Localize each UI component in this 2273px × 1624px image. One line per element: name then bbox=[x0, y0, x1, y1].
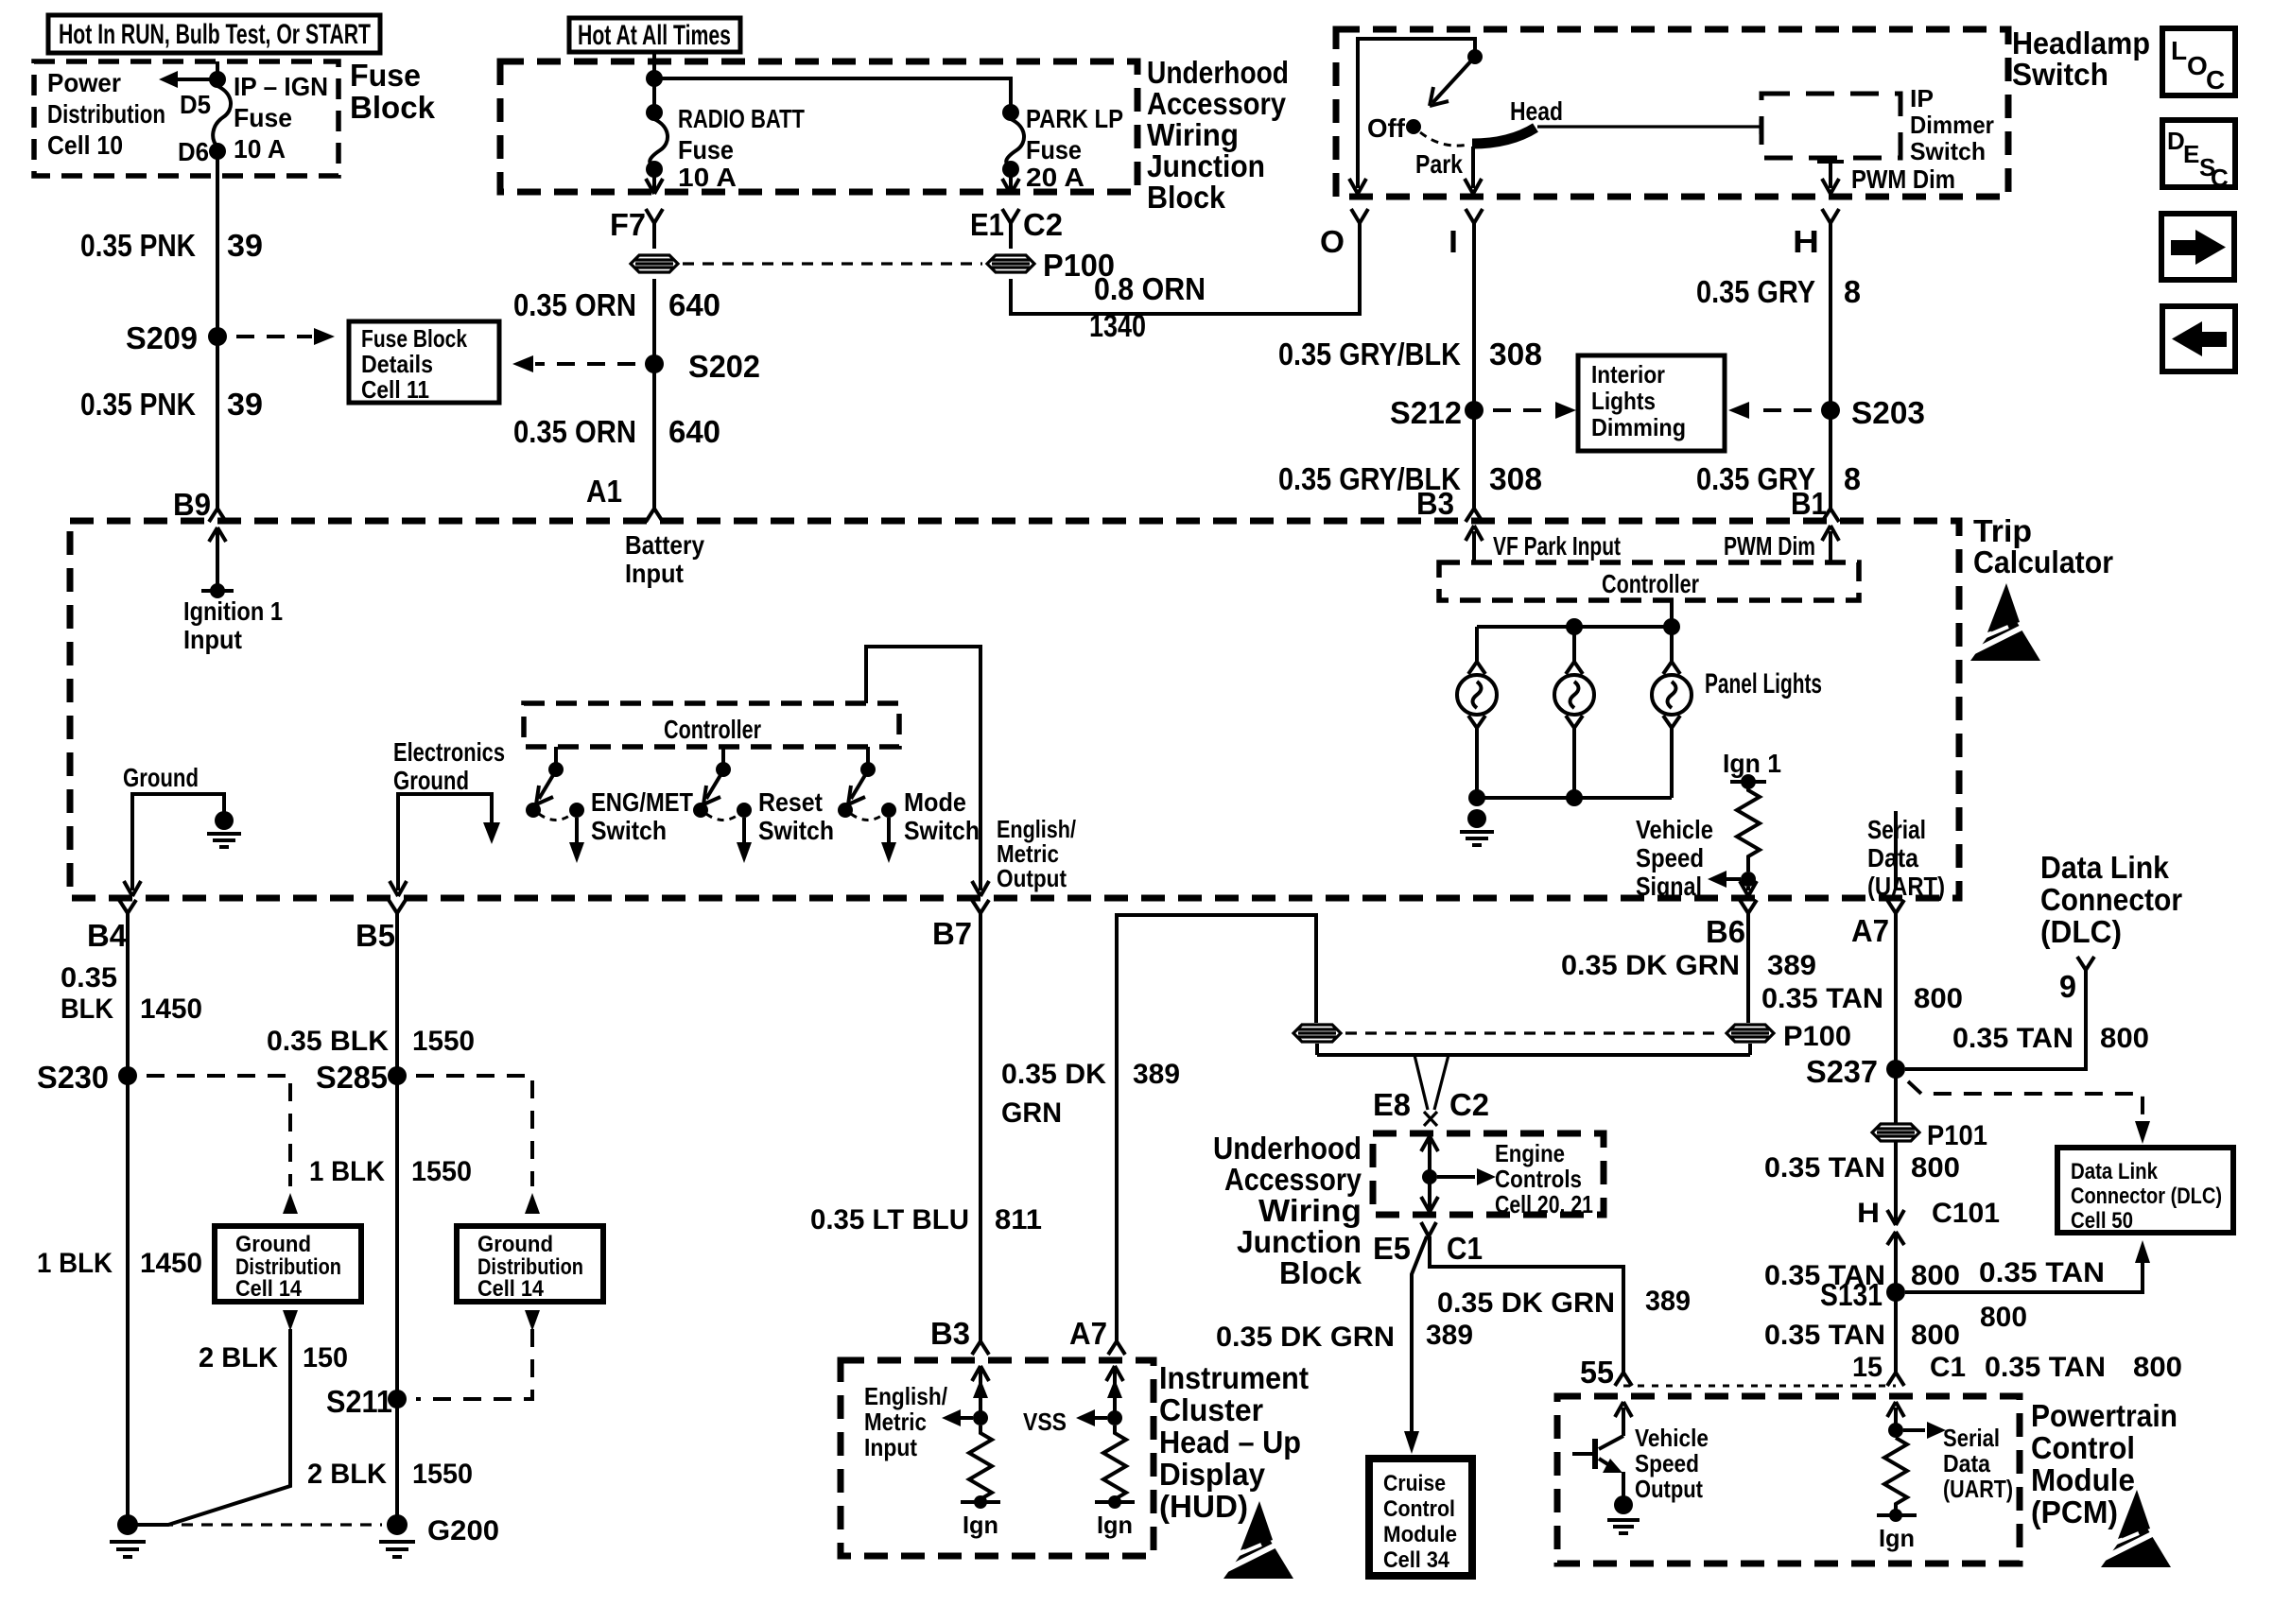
inline connector P101 bbox=[1872, 1124, 1919, 1141]
LOC nav box bbox=[2162, 28, 2235, 95]
Off contact bbox=[1367, 113, 1421, 143]
svg-text:Block: Block bbox=[1147, 180, 1226, 215]
splice S211 bbox=[326, 1384, 407, 1419]
svg-text:S237: S237 bbox=[1806, 1054, 1878, 1089]
svg-text:Fuse: Fuse bbox=[1026, 135, 1082, 164]
svg-text:Ignition 1: Ignition 1 bbox=[183, 596, 283, 626]
ESD symbol HUD bbox=[1223, 1501, 1293, 1579]
svg-text:Cell 14: Cell 14 bbox=[235, 1276, 303, 1302]
terminal B7 bbox=[932, 900, 989, 951]
svg-text:8: 8 bbox=[1844, 274, 1861, 309]
svg-text:Data Link: Data Link bbox=[2071, 1159, 2159, 1184]
svg-text:Electronics: Electronics bbox=[393, 737, 505, 767]
dashed ground link bbox=[142, 1523, 382, 1526]
svg-text:(UART): (UART) bbox=[1943, 1475, 2013, 1503]
svg-text:Dimmer: Dimmer bbox=[1910, 111, 1994, 139]
svg-text:Calculator: Calculator bbox=[1973, 544, 2113, 579]
svg-text:Cell 11: Cell 11 bbox=[361, 375, 429, 404]
svg-text:Ign: Ign bbox=[1879, 1524, 1915, 1552]
svg-text:0.35 DK GRN: 0.35 DK GRN bbox=[1216, 1322, 1395, 1353]
svg-text:10 A: 10 A bbox=[234, 134, 286, 164]
svg-text:S131: S131 bbox=[1820, 1277, 1883, 1312]
ground symbol panel lights bbox=[1460, 809, 1494, 845]
wire 0.35 ORN 640 upper bbox=[513, 279, 720, 509]
english/metric output wire bbox=[866, 647, 1076, 896]
svg-text:English/: English/ bbox=[864, 1382, 947, 1410]
svg-text:(DLC): (DLC) bbox=[2040, 914, 2122, 949]
ESD symbol trip calculator bbox=[1970, 583, 2040, 661]
wire 0.35 TAN 800 below C101 bbox=[1764, 1260, 1960, 1291]
svg-text:Battery: Battery bbox=[625, 530, 704, 560]
svg-text:Serial: Serial bbox=[1943, 1424, 2000, 1452]
underhood accessory wiring junction block box 1 bbox=[500, 55, 1289, 215]
svg-text:RADIO BATT: RADIO BATT bbox=[678, 104, 805, 133]
svg-text:(HUD): (HUD) bbox=[1159, 1489, 1248, 1524]
svg-text:Ign: Ign bbox=[963, 1511, 998, 1539]
svg-text:B4: B4 bbox=[87, 918, 128, 953]
svg-text:1 BLK: 1 BLK bbox=[37, 1248, 113, 1279]
svg-text:39: 39 bbox=[227, 387, 263, 422]
panel lamp 3 bbox=[1652, 662, 1692, 728]
wire B7 to HUD B3 0.35 LT BLU 811 bbox=[810, 913, 1042, 1355]
splice S230 bbox=[37, 1060, 298, 1214]
Reset switch bbox=[693, 747, 834, 863]
terminal 15 C1 PCM bbox=[1852, 1352, 2182, 1386]
PCM box bbox=[1557, 1396, 2178, 1564]
svg-text:150: 150 bbox=[303, 1342, 348, 1373]
svg-text:Controller: Controller bbox=[664, 715, 761, 744]
svg-text:Ground: Ground bbox=[477, 1232, 553, 1257]
svg-text:VSS: VSS bbox=[1023, 1408, 1067, 1436]
wire 0.35 GRY 8 lower bbox=[1696, 461, 1861, 496]
svg-text:D5: D5 bbox=[180, 90, 211, 119]
wire label 1 BLK 1550 bbox=[309, 1156, 472, 1187]
controller box right bbox=[1439, 562, 1859, 600]
terminal B6 bbox=[1706, 900, 1757, 949]
ground G200 left point bbox=[110, 1514, 146, 1557]
HUD english/metric input resistor bbox=[864, 1366, 1000, 1539]
svg-text:O: O bbox=[2187, 51, 2208, 80]
panel lamp 2 bbox=[1554, 662, 1594, 728]
svg-text:Block: Block bbox=[350, 90, 436, 125]
svg-text:A1: A1 bbox=[586, 474, 622, 509]
svg-text:Lights: Lights bbox=[1591, 387, 1656, 415]
svg-text:PWM Dim: PWM Dim bbox=[1724, 531, 1815, 561]
svg-text:Controller: Controller bbox=[1602, 569, 1699, 598]
Mode switch bbox=[838, 747, 980, 863]
splice S285 bbox=[316, 1060, 540, 1214]
svg-text:Headlamp: Headlamp bbox=[2012, 26, 2150, 60]
svg-text:Head: Head bbox=[1510, 96, 1563, 126]
svg-text:Block: Block bbox=[1279, 1255, 1362, 1290]
svg-text:640: 640 bbox=[668, 287, 720, 322]
wire bus inside junction block bbox=[646, 52, 1011, 112]
svg-text:H: H bbox=[1793, 224, 1819, 259]
svg-text:F7: F7 bbox=[610, 207, 646, 242]
svg-text:P100: P100 bbox=[1783, 1021, 1851, 1052]
svg-text:Switch: Switch bbox=[1910, 137, 1986, 165]
serial data UART label bbox=[1867, 815, 1945, 901]
battery input label bbox=[625, 530, 704, 588]
svg-text:389: 389 bbox=[1645, 1286, 1691, 1317]
svg-text:E8: E8 bbox=[1373, 1087, 1411, 1122]
dashed arrow from S202 into details box bbox=[512, 355, 635, 372]
svg-text:0.35 PNK: 0.35 PNK bbox=[80, 387, 196, 422]
trip calculator box bbox=[70, 513, 2113, 898]
svg-text:Controls: Controls bbox=[1495, 1165, 1582, 1193]
svg-text:Fuse Block: Fuse Block bbox=[361, 324, 467, 353]
svg-text:Cruise: Cruise bbox=[1383, 1471, 1446, 1496]
splice S212 bbox=[1390, 395, 1576, 430]
svg-text:IP – IGN: IP – IGN bbox=[234, 72, 328, 101]
ground distribution box 1 bbox=[215, 1226, 361, 1302]
svg-text:Speed: Speed bbox=[1636, 843, 1704, 872]
svg-text:Cluster: Cluster bbox=[1159, 1392, 1263, 1427]
svg-text:Head – Up: Head – Up bbox=[1159, 1425, 1301, 1460]
svg-text:1550: 1550 bbox=[411, 1156, 472, 1187]
terminal B9 bbox=[173, 487, 226, 522]
svg-text:Switch: Switch bbox=[904, 816, 980, 845]
svg-text:ENG/MET: ENG/MET bbox=[591, 787, 693, 817]
svg-text:Cell 14: Cell 14 bbox=[477, 1276, 545, 1302]
svg-text:Underhood: Underhood bbox=[1147, 55, 1289, 90]
svg-text:0.35 DK: 0.35 DK bbox=[1001, 1059, 1106, 1090]
svg-text:C1: C1 bbox=[1930, 1352, 1966, 1383]
terminal B1 trip bbox=[1791, 486, 1839, 522]
svg-text:Mode: Mode bbox=[904, 787, 966, 817]
svg-text:O: O bbox=[1320, 224, 1345, 259]
svg-text:C1: C1 bbox=[1447, 1231, 1483, 1266]
svg-text:Junction: Junction bbox=[1147, 148, 1265, 183]
svg-text:1340: 1340 bbox=[1089, 308, 1146, 343]
terminal B4 bbox=[87, 900, 136, 953]
svg-text:B9: B9 bbox=[173, 487, 211, 522]
inline connector P100 bbox=[987, 255, 1034, 272]
svg-text:Wiring: Wiring bbox=[1147, 117, 1239, 152]
svg-text:C2: C2 bbox=[1023, 207, 1063, 242]
svg-text:Junction: Junction bbox=[1237, 1224, 1362, 1259]
svg-text:Signal: Signal bbox=[1636, 872, 1702, 901]
svg-text:Speed: Speed bbox=[1635, 1449, 1699, 1477]
svg-text:Switch: Switch bbox=[758, 816, 834, 845]
svg-text:811: 811 bbox=[995, 1204, 1042, 1235]
cruise control module box bbox=[1369, 1459, 1472, 1576]
terminal A7 trip bbox=[1851, 900, 1904, 948]
svg-text:Cell 20, 21: Cell 20, 21 bbox=[1495, 1190, 1593, 1218]
svg-text:VF Park Input: VF Park Input bbox=[1493, 531, 1621, 561]
svg-text:Display: Display bbox=[1159, 1457, 1266, 1492]
wire 0.8 ORN 1340 bbox=[1011, 209, 1368, 343]
wire 2 BLK 150 from box 1 bbox=[132, 1310, 348, 1525]
right arrow nav box bbox=[2161, 214, 2234, 280]
svg-text:Distribution: Distribution bbox=[47, 99, 165, 129]
svg-text:Metric: Metric bbox=[864, 1408, 927, 1436]
svg-text:10 A: 10 A bbox=[678, 163, 737, 192]
title box: Hot At All Times bbox=[569, 18, 740, 52]
svg-text:Data: Data bbox=[1867, 843, 1918, 872]
svg-text:Ground: Ground bbox=[123, 763, 199, 792]
svg-text:Input: Input bbox=[864, 1433, 917, 1461]
svg-text:Input: Input bbox=[183, 625, 242, 654]
svg-text:Output: Output bbox=[1635, 1475, 1703, 1503]
PCM connector dotted line bbox=[1623, 1385, 1896, 1388]
svg-text:Fuse: Fuse bbox=[350, 58, 421, 93]
svg-text:B6: B6 bbox=[1706, 914, 1745, 949]
svg-text:Data: Data bbox=[1943, 1449, 1990, 1477]
wire E5 to cruise control 0.35 DK GRN 389 bbox=[1216, 1236, 1473, 1454]
underhood junction block 2 box bbox=[1213, 1131, 1604, 1290]
svg-text:B3: B3 bbox=[1416, 486, 1454, 521]
svg-text:Switch: Switch bbox=[591, 816, 667, 845]
svg-text:8: 8 bbox=[1844, 461, 1861, 496]
svg-text:Connector: Connector bbox=[2040, 882, 2182, 917]
transistor vehicle speed output bbox=[1572, 1402, 1709, 1533]
panel lights feed bus bbox=[1477, 600, 1680, 662]
vehicle speed signal label bbox=[1636, 815, 1713, 901]
svg-text:Input: Input bbox=[625, 559, 684, 588]
svg-text:B5: B5 bbox=[356, 918, 395, 953]
fuse RADIO BATT 10A bbox=[646, 104, 805, 194]
svg-text:800: 800 bbox=[1914, 983, 1963, 1014]
electronics ground wire bbox=[390, 737, 505, 896]
svg-text:Wiring: Wiring bbox=[1258, 1193, 1362, 1228]
svg-text:Control: Control bbox=[1383, 1496, 1455, 1522]
ground wire left bbox=[123, 763, 224, 896]
svg-text:Ground: Ground bbox=[393, 766, 469, 795]
svg-text:389: 389 bbox=[1133, 1059, 1180, 1090]
IP dimmer switch box bbox=[1761, 84, 1994, 165]
HUD VSS resistor bbox=[1023, 1366, 1135, 1539]
wire 0.35 GRY/BLK 308 lower bbox=[1278, 461, 1542, 496]
svg-text:1550: 1550 bbox=[412, 1026, 475, 1057]
svg-text:15: 15 bbox=[1852, 1352, 1883, 1383]
svg-text:Cell 50: Cell 50 bbox=[2071, 1208, 2133, 1234]
wiper arrow to Off bbox=[1430, 57, 1475, 106]
svg-text:H: H bbox=[1857, 1198, 1880, 1229]
svg-text:0.35: 0.35 bbox=[61, 962, 117, 993]
dashed throw arc Off to Park bbox=[1420, 132, 1468, 146]
wire label 2 BLK 1550 bbox=[307, 1459, 473, 1490]
ignition 1 input terminal bbox=[183, 527, 283, 654]
DESC nav box bbox=[2162, 120, 2235, 192]
serial data wire inside bbox=[1894, 811, 1898, 890]
svg-text:Engine: Engine bbox=[1495, 1139, 1565, 1167]
svg-text:Switch: Switch bbox=[2012, 57, 2108, 92]
svg-text:S230: S230 bbox=[37, 1060, 109, 1095]
junction block 2 internal wire to engine controls bbox=[1421, 1136, 1593, 1218]
terminal H bbox=[1793, 209, 1839, 509]
svg-text:Output: Output bbox=[997, 864, 1067, 892]
svg-text:C101: C101 bbox=[1932, 1198, 2000, 1229]
svg-text:PWM Dim: PWM Dim bbox=[1851, 164, 1955, 194]
svg-text:0.35 TAN: 0.35 TAN bbox=[1761, 983, 1883, 1014]
wire HUD A7 0.35 DK GRN 389 bbox=[1001, 915, 1316, 1355]
serial data UART resistor PCM bbox=[1877, 1402, 2013, 1552]
data link connector DLC cell 50 box bbox=[2057, 1148, 2233, 1234]
svg-text:0.35 TAN: 0.35 TAN bbox=[1952, 1023, 2073, 1054]
svg-text:E5: E5 bbox=[1373, 1231, 1411, 1266]
svg-text:0.35 TAN: 0.35 TAN bbox=[1985, 1352, 2106, 1383]
interior lights dimming box bbox=[1578, 355, 1725, 451]
splice S237 bbox=[1806, 1054, 2150, 1144]
wire 0.35 TAN 800 below P101 bbox=[1764, 1142, 1960, 1225]
svg-text:2 BLK: 2 BLK bbox=[199, 1342, 278, 1373]
svg-text:Module: Module bbox=[1383, 1522, 1457, 1547]
svg-text:S202: S202 bbox=[688, 349, 760, 384]
svg-text:B3: B3 bbox=[930, 1316, 970, 1351]
svg-text:P101: P101 bbox=[1927, 1120, 1987, 1151]
svg-text:(UART): (UART) bbox=[1867, 872, 1945, 901]
svg-text:Details: Details bbox=[361, 350, 433, 378]
ground distribution box 2 bbox=[457, 1226, 603, 1302]
Ign 1 pullup resistor bbox=[1708, 749, 1781, 896]
svg-text:Hot In RUN, Bulb Test, Or STAR: Hot In RUN, Bulb Test, Or START bbox=[59, 19, 371, 50]
svg-text:Vehicle: Vehicle bbox=[1636, 815, 1713, 844]
svg-text:0.35 TAN: 0.35 TAN bbox=[1764, 1320, 1885, 1351]
svg-text:GRN: GRN bbox=[1001, 1097, 1062, 1129]
svg-text:Trip: Trip bbox=[1973, 513, 2032, 548]
svg-text:(PCM): (PCM) bbox=[2031, 1494, 2118, 1529]
switch wiper pivot bbox=[1467, 49, 1483, 64]
svg-text:I: I bbox=[1449, 224, 1458, 259]
svg-text:308: 308 bbox=[1489, 337, 1542, 371]
svg-text:A7: A7 bbox=[1069, 1316, 1107, 1351]
fuse block label bbox=[350, 58, 436, 125]
inline connector P100 right bbox=[1726, 1025, 1774, 1042]
svg-text:0.35 LT BLU: 0.35 LT BLU bbox=[810, 1204, 969, 1235]
ground G200 bbox=[379, 1514, 499, 1557]
svg-text:Hot At All Times: Hot At All Times bbox=[578, 20, 731, 51]
svg-text:S211: S211 bbox=[326, 1384, 392, 1419]
wire B5 ground 0.35 BLK 1550 bbox=[267, 913, 475, 1517]
wire B4 ground 0.35 BLK 1450 bbox=[61, 913, 202, 1517]
svg-text:Underhood: Underhood bbox=[1213, 1131, 1362, 1166]
svg-text:B1: B1 bbox=[1791, 486, 1827, 521]
svg-text:Off: Off bbox=[1367, 113, 1406, 143]
svg-text:Control: Control bbox=[2031, 1430, 2135, 1465]
VF park input arrow bbox=[1466, 526, 1621, 562]
svg-text:Dimming: Dimming bbox=[1591, 413, 1686, 441]
svg-text:Fuse: Fuse bbox=[678, 135, 734, 164]
svg-text:Ground: Ground bbox=[235, 1232, 311, 1257]
inline connector P100 left bbox=[1293, 1025, 1341, 1042]
svg-text:0.35 GRY: 0.35 GRY bbox=[1696, 274, 1815, 309]
fuse IP-IGN 10A bbox=[159, 61, 328, 166]
svg-text:BLK: BLK bbox=[61, 993, 113, 1025]
svg-text:0.35 PNK: 0.35 PNK bbox=[80, 228, 196, 263]
svg-text:0.35 DK GRN: 0.35 DK GRN bbox=[1437, 1287, 1615, 1319]
HUD box bbox=[841, 1360, 1309, 1556]
svg-text:389: 389 bbox=[1426, 1320, 1473, 1351]
svg-text:800: 800 bbox=[1911, 1152, 1960, 1183]
wire 0.35 PNK 39 bbox=[80, 157, 263, 509]
svg-text:S285: S285 bbox=[316, 1060, 388, 1095]
wire 0.35 GRY 8 upper bbox=[1696, 274, 1861, 309]
left arrow nav box bbox=[2162, 306, 2235, 371]
Park output wire bbox=[1465, 147, 1482, 194]
wire A7 trip to S237 0.35 TAN 800 bbox=[1761, 913, 1963, 1123]
svg-text:0.8 ORN: 0.8 ORN bbox=[1094, 271, 1206, 306]
svg-text:Vehicle: Vehicle bbox=[1635, 1424, 1709, 1452]
ENG/MET switch bbox=[526, 747, 693, 863]
svg-text:0.35 ORN: 0.35 ORN bbox=[513, 287, 636, 322]
terminal I bbox=[1449, 209, 1483, 509]
fuse PARK LP 20A bbox=[1002, 104, 1123, 194]
terminals E1 C2 bbox=[970, 207, 1063, 249]
controller box left bbox=[524, 703, 899, 747]
wire C1 to PCM 55 0.35 DK GRN 389 bbox=[1430, 1236, 1691, 1390]
splice S203 bbox=[1728, 395, 1925, 430]
svg-text:Panel Lights: Panel Lights bbox=[1705, 668, 1822, 700]
headlamp switch internal O feed wire bbox=[1349, 39, 1475, 194]
svg-text:G200: G200 bbox=[427, 1515, 499, 1546]
svg-text:800: 800 bbox=[2133, 1352, 2182, 1383]
Park contact lever (thick) bbox=[1472, 128, 1536, 144]
svg-text:800: 800 bbox=[1911, 1320, 1960, 1351]
svg-text:IP: IP bbox=[1910, 84, 1934, 112]
terminals E5 C1 bbox=[1373, 1222, 1483, 1266]
power distribution cell 10 box bbox=[34, 61, 338, 176]
svg-text:C2: C2 bbox=[1449, 1087, 1489, 1122]
svg-text:C: C bbox=[2211, 164, 2229, 192]
svg-text:39: 39 bbox=[227, 228, 263, 263]
svg-text:L: L bbox=[2171, 36, 2187, 65]
svg-text:0.35 TAN: 0.35 TAN bbox=[1979, 1257, 2105, 1288]
headlamp switch box bbox=[1336, 26, 2150, 197]
svg-text:800: 800 bbox=[2100, 1023, 2149, 1054]
svg-text:D: D bbox=[2167, 127, 2185, 155]
svg-text:Powertrain: Powertrain bbox=[2031, 1398, 2178, 1433]
svg-text:Data Link: Data Link bbox=[2040, 850, 2170, 885]
svg-text:E: E bbox=[2183, 140, 2199, 168]
svg-text:9: 9 bbox=[2059, 969, 2076, 1004]
splice S209 bbox=[126, 320, 335, 355]
panel lights return bus bbox=[1468, 728, 1672, 806]
svg-text:S203: S203 bbox=[1851, 395, 1925, 430]
svg-text:Connector (DLC): Connector (DLC) bbox=[2071, 1183, 2222, 1209]
svg-text:800: 800 bbox=[1980, 1302, 2027, 1333]
svg-text:0.35 TAN: 0.35 TAN bbox=[1764, 1152, 1885, 1183]
splice S202 bbox=[645, 349, 760, 384]
svg-text:Accessory: Accessory bbox=[1224, 1162, 1362, 1197]
terminals E8 C2 bbox=[1373, 1087, 1489, 1122]
svg-text:640: 640 bbox=[668, 414, 720, 449]
terminal O bbox=[1320, 224, 1345, 259]
svg-text:Cell 34: Cell 34 bbox=[1383, 1547, 1450, 1573]
inline connector C101 H bbox=[1857, 1198, 2000, 1373]
wire label 1 BLK 1450 bbox=[37, 1248, 202, 1279]
svg-text:Power: Power bbox=[47, 68, 121, 97]
svg-text:1550: 1550 bbox=[412, 1459, 473, 1490]
svg-text:E1: E1 bbox=[970, 207, 1004, 242]
panel lamp 1 bbox=[1457, 662, 1497, 728]
svg-text:308: 308 bbox=[1489, 461, 1542, 496]
svg-text:1450: 1450 bbox=[140, 993, 202, 1025]
svg-text:0.35 DK GRN: 0.35 DK GRN bbox=[1561, 950, 1740, 981]
svg-text:Module: Module bbox=[2031, 1462, 2135, 1497]
splice S131 to DLC box 0.35 TAN 800 bbox=[1820, 1240, 2150, 1333]
svg-text:Cell 10: Cell 10 bbox=[47, 130, 123, 160]
PWM dim arrow trip bbox=[1724, 526, 1839, 562]
DLC terminal 9 bbox=[1905, 850, 2182, 1069]
svg-text:20 A: 20 A bbox=[1026, 163, 1084, 192]
svg-text:Interior: Interior bbox=[1591, 360, 1665, 389]
svg-text:S212: S212 bbox=[1390, 395, 1462, 430]
svg-text:Park: Park bbox=[1415, 149, 1463, 179]
dashed connector link P100 bbox=[1345, 1031, 1722, 1034]
terminal A1 bbox=[586, 474, 663, 522]
svg-text:800: 800 bbox=[1911, 1260, 1960, 1291]
